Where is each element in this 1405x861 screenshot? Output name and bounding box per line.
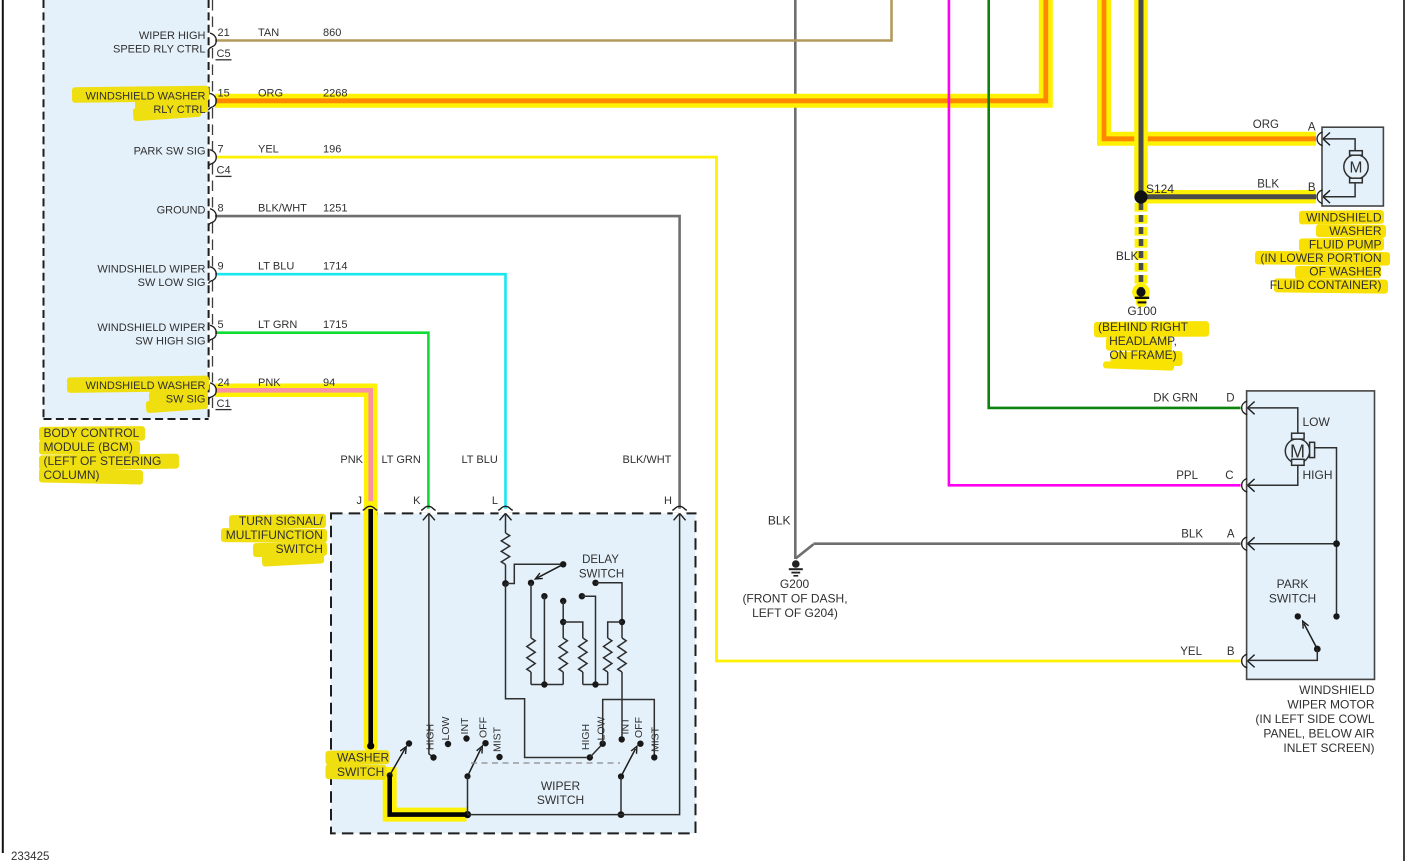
svg-text:TAN: TAN bbox=[258, 27, 279, 39]
svg-text:COLUMN): COLUMN) bbox=[44, 468, 100, 482]
svg-text:M: M bbox=[1350, 159, 1363, 176]
resistor R4 bbox=[579, 638, 587, 672]
wiper switch right OFF contact bbox=[637, 741, 643, 747]
BCM connector dashed line bbox=[212, 0, 214, 33]
svg-text:G200: G200 bbox=[780, 577, 810, 591]
wire BLK to ground G200 bbox=[794, 0, 797, 559]
svg-text:MODULE (BCM): MODULE (BCM) bbox=[44, 440, 133, 454]
node bottom right bbox=[592, 681, 598, 687]
splice S124 bbox=[1134, 190, 1147, 203]
svg-text:B: B bbox=[1227, 646, 1235, 658]
svg-text:INLET SCREEN): INLET SCREEN) bbox=[1283, 741, 1374, 755]
svg-text:OFF: OFF bbox=[633, 717, 645, 738]
svg-text:D: D bbox=[1226, 393, 1234, 405]
svg-text:L: L bbox=[492, 495, 498, 507]
resistor R5 bbox=[604, 638, 612, 672]
delay network bottom right bus bbox=[583, 684, 608, 686]
BCM pin 5 bbox=[208, 325, 216, 342]
wire R6 to INT contact bbox=[621, 672, 623, 739]
svg-text:BODY CONTROL: BODY CONTROL bbox=[44, 426, 140, 440]
svg-text:9: 9 bbox=[218, 261, 224, 273]
washer switch lever bbox=[390, 748, 406, 775]
svg-text:LT GRN: LT GRN bbox=[382, 454, 421, 466]
svg-text:B: B bbox=[1308, 182, 1316, 194]
svg-text:HIGH: HIGH bbox=[1303, 468, 1333, 482]
svg-text:C: C bbox=[1225, 470, 1233, 482]
svg-text:8: 8 bbox=[218, 203, 224, 215]
svg-text:(IN LEFT SIDE COWL: (IN LEFT SIDE COWL bbox=[1255, 712, 1374, 726]
svg-text:WINDSHIELD WIPER: WINDSHIELD WIPER bbox=[97, 322, 205, 334]
node R5/R6 top bbox=[619, 619, 625, 625]
wire contact2 drop bbox=[543, 596, 545, 684]
node L junction bbox=[502, 580, 509, 587]
wire contact4 drop bbox=[582, 596, 596, 684]
svg-text:1714: 1714 bbox=[323, 261, 347, 273]
svg-text:BLK: BLK bbox=[1181, 529, 1203, 541]
wire LT BLU 1714 pin9 to pin L bbox=[215, 274, 506, 509]
wiper switch left HIGH contact bbox=[430, 754, 436, 760]
BCM pin 24 bbox=[208, 383, 216, 400]
svg-text:M: M bbox=[1290, 442, 1305, 462]
svg-text:1715: 1715 bbox=[323, 319, 347, 331]
wire ORG to washer pump pin A highlight bbox=[1104, 0, 1316, 139]
svg-text:BLK: BLK bbox=[1257, 179, 1279, 191]
wiper motor wire D to motor bbox=[1248, 408, 1298, 434]
delay switch resistor R1 feed from pin L bbox=[505, 514, 507, 533]
svg-text:21: 21 bbox=[218, 27, 230, 39]
wire contact1 to resistor R2 bbox=[530, 583, 532, 638]
washer switch feed wire (thick) bbox=[368, 509, 373, 746]
frame right border bbox=[1403, 0, 1405, 861]
svg-text:LOW: LOW bbox=[595, 716, 607, 740]
svg-text:233425: 233425 bbox=[11, 851, 49, 861]
svg-text:BLK/WHT: BLK/WHT bbox=[623, 454, 672, 466]
svg-text:WINDSHIELD: WINDSHIELD bbox=[1306, 211, 1382, 225]
svg-text:LT BLU: LT BLU bbox=[258, 261, 294, 273]
wire contact3 to resistor R3 bbox=[562, 601, 564, 638]
resistor R1 bbox=[501, 533, 509, 565]
resistor R3 bbox=[559, 638, 567, 672]
delay switch contact 1 bbox=[528, 580, 534, 586]
svg-text:SPEED RLY CTRL: SPEED RLY CTRL bbox=[113, 44, 206, 56]
svg-text:PPL: PPL bbox=[1176, 470, 1198, 482]
svg-text:A: A bbox=[1227, 529, 1235, 541]
wire ORG to washer pump pin A bbox=[1104, 0, 1316, 139]
svg-text:LOW: LOW bbox=[1303, 415, 1331, 429]
resistor R6 bbox=[618, 638, 626, 672]
wire DK GRN to wiper motor pin D bbox=[989, 0, 1241, 408]
wiper switch right lever bbox=[621, 749, 636, 777]
delay switch contact 3 bbox=[560, 598, 566, 604]
svg-text:MULTIFUNCTION: MULTIFUNCTION bbox=[226, 528, 323, 542]
ground G200 bbox=[792, 560, 800, 568]
svg-text:SW HIGH SIG: SW HIGH SIG bbox=[135, 336, 205, 348]
highlight washer switch output wire bbox=[390, 767, 467, 815]
wire LT GRN 1715 pin5 to pin K bbox=[215, 333, 428, 509]
svg-text:RLY CTRL: RLY CTRL bbox=[153, 104, 205, 116]
wire BLK/WHT 1251 pin8 to pin H bbox=[215, 216, 680, 509]
svg-text:WINDSHIELD WIPER: WINDSHIELD WIPER bbox=[97, 264, 205, 276]
svg-text:5: 5 bbox=[218, 319, 224, 331]
svg-text:SW LOW SIG: SW LOW SIG bbox=[138, 277, 206, 289]
wire PNK 94 highlight bbox=[215, 390, 371, 510]
wire ORG 2268 highlight bbox=[215, 0, 1046, 101]
motor M1 WINDSHIELD WASHER FLUID PUMP box bbox=[1322, 127, 1383, 206]
park switch left contact bbox=[1295, 613, 1301, 619]
svg-text:YEL: YEL bbox=[1180, 646, 1202, 658]
svg-text:ON FRAME): ON FRAME) bbox=[1109, 348, 1176, 362]
svg-text:860: 860 bbox=[323, 27, 341, 39]
svg-text:PNK: PNK bbox=[258, 377, 281, 389]
delay switch contact 2 bbox=[541, 593, 547, 599]
svg-text:C1: C1 bbox=[217, 398, 231, 410]
svg-text:INT: INT bbox=[620, 717, 632, 735]
park switch right contact bbox=[1333, 613, 1339, 619]
wiper switch left OFF contact bbox=[482, 740, 488, 746]
delay switch contact 5 bbox=[592, 580, 598, 586]
svg-text:(LEFT OF STEERING: (LEFT OF STEERING bbox=[44, 454, 162, 468]
svg-text:WASHER: WASHER bbox=[337, 751, 390, 765]
highlight marker pin 15 label bbox=[72, 86, 209, 103]
wiper motor M bbox=[1285, 439, 1309, 463]
ground G100 bbox=[1136, 287, 1145, 296]
svg-text:SW SIG: SW SIG bbox=[166, 393, 206, 405]
svg-text:BLK: BLK bbox=[768, 514, 791, 528]
delay switch arm bbox=[537, 564, 563, 578]
bridge HIGH to LOW bbox=[590, 744, 603, 758]
svg-text:DELAY: DELAY bbox=[582, 554, 619, 566]
svg-text:G100: G100 bbox=[1127, 304, 1157, 318]
BCM pin 8 bbox=[208, 209, 216, 226]
svg-text:ORG: ORG bbox=[1253, 119, 1279, 131]
svg-text:WINDSHIELD WASHER: WINDSHIELD WASHER bbox=[86, 380, 206, 392]
wire motor tab to park switch bbox=[1315, 448, 1337, 617]
pump internal wire B bbox=[1324, 183, 1356, 197]
wiper switch left LOW contact bbox=[445, 741, 451, 747]
svg-text:LOW: LOW bbox=[440, 716, 452, 740]
wire BLK S124 to ground G100 highlight bbox=[1135, 203, 1148, 288]
svg-text:WINDSHIELD WASHER: WINDSHIELD WASHER bbox=[86, 90, 206, 102]
highlight washer switch feed wire bbox=[364, 508, 378, 746]
svg-text:PNK: PNK bbox=[340, 454, 363, 466]
common wire to pin H bbox=[468, 514, 680, 815]
svg-text:H: H bbox=[664, 495, 672, 507]
highlight marker WASHER SWITCH label bbox=[325, 750, 389, 765]
svg-text:WINDSHIELD: WINDSHIELD bbox=[1299, 683, 1375, 697]
wire BLK dashed S124 to ground G100 bbox=[1139, 203, 1144, 288]
svg-text:1251: 1251 bbox=[323, 203, 347, 215]
wiper switch right HIGH contact bbox=[587, 754, 593, 760]
delay switch arm pivot bbox=[560, 561, 566, 567]
svg-text:YEL: YEL bbox=[258, 144, 279, 156]
svg-text:94: 94 bbox=[323, 377, 335, 389]
wire ORG 2268 pin15 to top bbox=[215, 0, 1046, 101]
washer switch output wire (thick) bbox=[390, 775, 468, 814]
svg-text:WIPER MOTOR: WIPER MOTOR bbox=[1287, 698, 1374, 712]
svg-text:WIPER HIGH: WIPER HIGH bbox=[139, 30, 206, 42]
node R3 top bbox=[560, 619, 566, 625]
svg-text:C5: C5 bbox=[217, 48, 231, 60]
wiper motor wire C to motor bbox=[1248, 465, 1298, 485]
svg-text:S124: S124 bbox=[1146, 182, 1174, 196]
wiper switch right LOW contact bbox=[600, 741, 606, 747]
wire BLK G200 to wiper motor pin A bbox=[813, 542, 1240, 545]
svg-text:SWITCH: SWITCH bbox=[1269, 592, 1316, 606]
svg-text:2268: 2268 bbox=[323, 87, 347, 99]
svg-text:OFF: OFF bbox=[478, 717, 490, 738]
washer switch contact bbox=[406, 740, 412, 746]
svg-text:BLK: BLK bbox=[1116, 249, 1139, 263]
svg-text:(BEHIND RIGHT: (BEHIND RIGHT bbox=[1098, 320, 1189, 334]
wire BLK to splice S124 highlight bbox=[1134, 0, 1148, 197]
node lever junction on common bbox=[618, 811, 625, 818]
svg-text:GROUND: GROUND bbox=[157, 205, 206, 217]
wiper switch left MIST contact bbox=[496, 754, 502, 760]
BCM pin 21 bbox=[208, 33, 216, 50]
svg-text:HEADLAMP,: HEADLAMP, bbox=[1109, 334, 1177, 348]
wire BLK S124 to washer pump pin B bbox=[1141, 194, 1316, 199]
svg-text:OF WASHER: OF WASHER bbox=[1309, 265, 1382, 279]
svg-text:BLK/WHT: BLK/WHT bbox=[258, 203, 307, 215]
module U1 BODY CONTROL MODULE (BCM) box bbox=[44, 0, 208, 419]
node A junction bbox=[1333, 540, 1340, 547]
park switch lever bbox=[1304, 624, 1317, 650]
svg-text:LT BLU: LT BLU bbox=[462, 454, 498, 466]
wire junction to delay arm bbox=[506, 564, 564, 583]
BCM pin 7 bbox=[208, 150, 216, 167]
svg-text:J: J bbox=[357, 495, 363, 507]
svg-text:A: A bbox=[1308, 122, 1316, 134]
svg-text:ORG: ORG bbox=[258, 87, 283, 99]
bracket LOW to MIST bbox=[603, 700, 655, 758]
svg-text:(IN LOWER PORTION: (IN LOWER PORTION bbox=[1260, 251, 1381, 265]
wire PPL to wiper motor pin C bbox=[949, 0, 1241, 485]
delay network bottom left bus bbox=[531, 684, 563, 686]
svg-text:C4: C4 bbox=[217, 165, 231, 177]
mechanical link dashed bbox=[471, 762, 620, 764]
svg-text:7: 7 bbox=[218, 144, 224, 156]
wire R3top to resistor R4 bbox=[563, 622, 583, 638]
wire BLK splice S124 to washer pump pin B highlight bbox=[1141, 190, 1316, 204]
resistor R2 bbox=[527, 638, 535, 672]
BCM pin 9 bbox=[208, 267, 216, 284]
wiper switch right MIST contact bbox=[651, 754, 657, 760]
svg-text:196: 196 bbox=[323, 144, 341, 156]
svg-text:PARK SW SIG: PARK SW SIG bbox=[134, 146, 206, 158]
pump motor M bbox=[1344, 155, 1368, 179]
svg-text:FLUID CONTAINER): FLUID CONTAINER) bbox=[1270, 278, 1382, 292]
svg-text:WASHER: WASHER bbox=[1329, 224, 1382, 238]
delay switch contact 4 bbox=[579, 593, 585, 599]
wiper switch left INT contact bbox=[463, 735, 469, 741]
switch S1 TURN SIGNAL/MULTIFUNCTION SWITCH box bbox=[331, 513, 696, 833]
svg-text:SWITCH: SWITCH bbox=[537, 793, 584, 807]
svg-text:DK GRN: DK GRN bbox=[1153, 393, 1198, 405]
wire pin L node to wiper HIGH contact bbox=[506, 584, 587, 758]
wire PNK 94 pin24 to pin J bbox=[215, 390, 371, 508]
svg-text:FLUID PUMP: FLUID PUMP bbox=[1309, 238, 1382, 252]
svg-text:SWITCH: SWITCH bbox=[337, 765, 384, 779]
wire contact5 to R5/R6 bbox=[596, 583, 623, 638]
frame left border bbox=[2, 0, 4, 853]
pump internal wire A bbox=[1324, 139, 1356, 151]
svg-text:INT: INT bbox=[459, 717, 471, 735]
wire park lever to pin B bbox=[1248, 649, 1317, 660]
svg-text:LEFT OF G204): LEFT OF G204) bbox=[752, 606, 838, 620]
svg-text:15: 15 bbox=[218, 87, 230, 99]
highlight marker pin 24 label bbox=[67, 376, 209, 393]
svg-text:SWITCH: SWITCH bbox=[579, 569, 624, 581]
svg-text:K: K bbox=[413, 495, 421, 507]
wire TAN 860 pin21 to top bbox=[215, 0, 892, 41]
highlight marker TURN SIGNAL label bbox=[229, 514, 326, 529]
svg-text:PARK: PARK bbox=[1277, 577, 1309, 591]
wiper switch K wire bbox=[429, 514, 434, 758]
svg-text:WIPER: WIPER bbox=[541, 779, 581, 793]
svg-text:(FRONT OF DASH,: (FRONT OF DASH, bbox=[742, 592, 847, 606]
svg-text:HIGH: HIGH bbox=[580, 724, 592, 750]
highlight marker pump label bbox=[1299, 210, 1384, 224]
motor M2 WINDSHIELD WIPER MOTOR box bbox=[1247, 391, 1375, 680]
svg-text:LT GRN: LT GRN bbox=[258, 319, 297, 331]
wire YEL 196 pin7 to wiper motor pin B bbox=[215, 157, 1241, 661]
node bottom left bbox=[541, 681, 547, 687]
BCM pin 15 bbox=[208, 93, 216, 110]
wiper switch right INT contact bbox=[619, 736, 625, 742]
svg-text:HIGH: HIGH bbox=[424, 724, 436, 750]
wire pin A to junction bbox=[1248, 543, 1336, 545]
svg-text:24: 24 bbox=[218, 377, 230, 389]
svg-text:TURN SIGNAL/: TURN SIGNAL/ bbox=[239, 514, 324, 528]
svg-text:MIST: MIST bbox=[492, 726, 504, 752]
svg-text:MIST: MIST bbox=[650, 726, 662, 752]
highlight marker G100 location note bbox=[1094, 321, 1209, 337]
wire BLK vertical to splice S124 bbox=[1139, 0, 1144, 197]
svg-text:SWITCH: SWITCH bbox=[276, 542, 323, 556]
wiper switch left lever bbox=[468, 749, 482, 777]
svg-text:PANEL, BELOW AIR: PANEL, BELOW AIR bbox=[1263, 727, 1374, 741]
highlight marker BCM location note bbox=[39, 426, 145, 441]
